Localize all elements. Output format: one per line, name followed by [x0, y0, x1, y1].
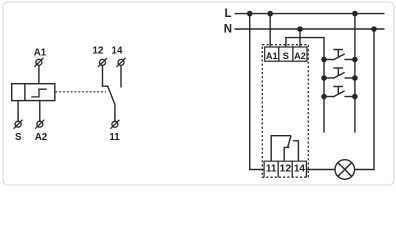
line L: [235, 13, 385, 15]
wire coil to A2: [39, 101, 41, 122]
junction dot L1: [247, 11, 253, 17]
wire A1 to coil: [38, 66, 40, 84]
terminal box S: [279, 47, 293, 61]
wire 12 contact: [103, 66, 108, 87]
junction dot N1: [297, 26, 303, 32]
frame border: [3, 2, 394, 185]
wire 14 contact: [120, 66, 122, 88]
terminal box 14: [292, 161, 306, 177]
svg-text:A2: A2: [35, 132, 48, 143]
push button S2: [321, 68, 358, 81]
wire arm to 11: [114, 104, 116, 121]
coil divider: [24, 84, 26, 101]
svg-text:11: 11: [266, 163, 277, 174]
svg-text:S: S: [283, 51, 289, 61]
step-function symbol: [31, 89, 47, 97]
push button S3: [321, 87, 358, 100]
svg-text:11: 11: [109, 132, 120, 143]
terminal 11: [110, 120, 119, 129]
terminal 12: [98, 58, 107, 67]
svg-text:S: S: [15, 132, 22, 143]
terminal A2: [35, 120, 44, 129]
junction dot L3: [352, 11, 358, 17]
mechanical link (dashed): [56, 91, 107, 93]
wire coil to S: [17, 101, 19, 122]
wire L to push-button bus right: [354, 14, 356, 133]
wire L to A1: [269, 14, 271, 47]
terminal box A1: [265, 47, 279, 61]
internal contact 14: [293, 141, 298, 161]
svg-text:14: 14: [112, 46, 123, 57]
svg-text:12: 12: [93, 46, 104, 57]
wire 14 to lamp: [306, 169, 335, 171]
wire L to terminal 11 (left drop): [250, 14, 264, 170]
svg-text:A1: A1: [34, 48, 47, 59]
junction dot N2: [371, 26, 377, 32]
terminal 14: [117, 58, 126, 67]
svg-text:L: L: [225, 8, 232, 20]
svg-text:N: N: [224, 24, 232, 36]
terminal box 12: [278, 161, 292, 177]
terminal box 11: [264, 161, 278, 177]
device outline (dashed): [262, 45, 308, 178]
svg-text:A2: A2: [294, 51, 306, 61]
lamp E1: [335, 160, 355, 180]
terminal S: [14, 120, 23, 129]
internal contact 12: [284, 147, 289, 161]
internal contact common wire (11): [271, 136, 291, 162]
wire N to A2: [299, 29, 301, 47]
internal contact arm: [288, 136, 291, 148]
svg-text:12: 12: [280, 162, 292, 174]
svg-text:14: 14: [294, 163, 306, 174]
junction dot L2: [267, 11, 273, 17]
wire N to lamp: [355, 29, 374, 170]
push button S1: [321, 50, 358, 63]
coil K1 box: [12, 84, 55, 101]
terminal box A2: [293, 47, 307, 61]
wire S to push-button bus: [286, 38, 324, 133]
line N: [235, 28, 385, 30]
terminal A1: [34, 58, 43, 67]
changeover arm: [108, 86, 115, 105]
svg-text:A1: A1: [266, 51, 278, 61]
